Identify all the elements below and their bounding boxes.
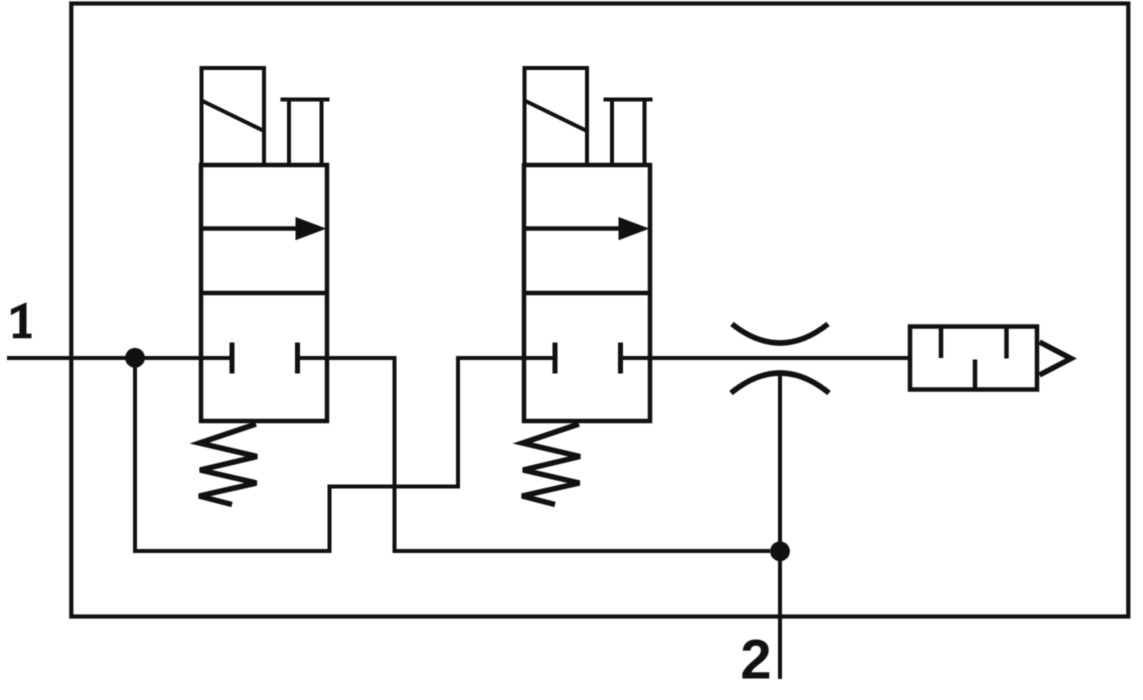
junction node B (770, 541, 790, 561)
svg-text:2: 2 (740, 628, 771, 691)
port 1 label (11, 302, 32, 338)
valve V1 return spring (199, 424, 257, 505)
silencer baffle 2 (973, 360, 978, 389)
valve V1 blocked port bar (right, closed position) (295, 343, 300, 374)
wire from valve V2 outlet to silencer (621, 356, 911, 360)
silencer baffle 1 (939, 328, 944, 358)
valve V2 solenoid coil (525, 68, 588, 165)
port 1 wire (7, 356, 232, 360)
valve V1 solenoid coil (202, 68, 265, 165)
silencer exhaust arrow (1040, 342, 1072, 375)
valve V2 return spring (522, 424, 580, 505)
valve V2 solenoid diagonal (525, 101, 588, 132)
valve V1 solenoid diagonal (202, 101, 265, 132)
junction node A (125, 348, 145, 368)
valve V1 body (201, 165, 327, 421)
valve V1 manual override (281, 100, 330, 166)
wire from node A to valve V2 inlet (135, 358, 554, 551)
valve V2 blocked port bar (right, closed position) (618, 343, 623, 374)
flow restrictor lower arc (731, 373, 829, 393)
valve V2 blocked port bar (left, closed position) (553, 343, 558, 374)
valve V2 manual override (604, 100, 653, 166)
valve V1 blocked port bar (left, closed position) (230, 343, 235, 374)
wire restrictor branch to port 2 (778, 374, 782, 679)
valve V2 flow arrow (open position) (524, 217, 650, 240)
valve V1 flow arrow (open position) (201, 217, 327, 240)
flow restrictor upper arc (732, 324, 828, 343)
valve V2 body (524, 165, 650, 421)
silencer body (910, 327, 1037, 390)
port 2 label (740, 628, 771, 691)
wire from valve V1 outlet to node B (298, 358, 771, 551)
silencer baffle 3 (1004, 328, 1009, 359)
